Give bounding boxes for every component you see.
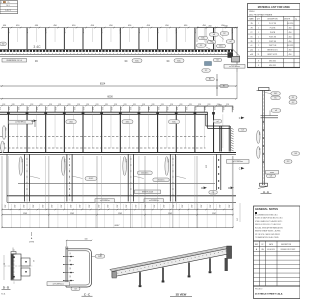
- svg-text:450: 450: [166, 107, 168, 110]
- svg-text:C - C: C - C: [84, 292, 90, 296]
- svg-text:450: 450: [205, 165, 207, 168]
- overall dimension 6000: [0, 95, 237, 99]
- svg-text:D: D: [100, 253, 102, 257]
- svg-text:228: 228: [161, 104, 164, 106]
- svg-text:C6: C6: [212, 192, 214, 194]
- svg-text:25 STEELE STREET CALA: 25 STEELE STREET CALA: [255, 292, 283, 295]
- svg-text:PL47B: PL47B: [270, 32, 276, 34]
- svg-text:228: 228: [151, 104, 154, 106]
- svg-text:1202: 1202: [70, 213, 74, 215]
- svg-text:a4: a4: [229, 41, 231, 43]
- svg-text:450: 450: [73, 107, 75, 110]
- lower elevation support posts: [24, 154, 175, 201]
- svg-text:450: 450: [97, 205, 99, 208]
- svg-text:PL 87 X8: PL 87 X8: [269, 23, 276, 25]
- svg-text:M16 X35: M16 X35: [269, 61, 276, 63]
- svg-text:65: 65: [69, 253, 71, 255]
- svg-text:G3: G3: [287, 161, 290, 163]
- svg-text:3C: 3C: [35, 59, 38, 63]
- svg-text:450: 450: [222, 107, 224, 110]
- svg-text:450: 450: [227, 205, 229, 208]
- plan view right end extension lines: [197, 28, 237, 73]
- svg-text:450: 450: [78, 205, 80, 208]
- svg-text:450: 450: [143, 205, 145, 208]
- svg-text:228: 228: [142, 104, 145, 106]
- svg-text:xxTICKERxxx: xxTICKERxxx: [15, 122, 26, 124]
- svg-text:450 X35: 450 X35: [287, 45, 293, 47]
- svg-text:228: 228: [30, 104, 33, 106]
- 3D view posts: [139, 258, 228, 287]
- svg-text:450: 450: [153, 205, 155, 208]
- svg-text:434: 434: [218, 105, 221, 107]
- svg-text:450: 450: [54, 107, 56, 110]
- svg-text:a4: a4: [216, 121, 218, 123]
- top-left revision mini-table: [0, 1, 18, 14]
- svg-text:C: C: [239, 167, 241, 170]
- svg-text:450: 450: [59, 205, 61, 208]
- section flags D: [201, 187, 234, 195]
- plan view tags 3C 34C right: [166, 59, 184, 63]
- svg-text:G4: G4: [294, 153, 297, 155]
- elevation mid-rail dashed: [0, 137, 206, 149]
- detail C-C rotated dims: [69, 253, 71, 278]
- svg-text:450: 450: [289, 50, 292, 52]
- svg-text:3C: 3C: [166, 59, 169, 63]
- svg-text:228: 228: [40, 104, 43, 106]
- title block project: [254, 286, 301, 299]
- lower elevation tag row 1: [137, 171, 152, 175]
- svg-text:B1: B1: [209, 79, 211, 81]
- svg-text:450: 450: [175, 107, 177, 110]
- svg-text:450 X90: 450 X90: [287, 23, 293, 25]
- svg-text:PL87 XB: PL87 XB: [269, 36, 277, 38]
- svg-text:450: 450: [190, 205, 192, 208]
- svg-text:A - A: A - A: [263, 191, 269, 194]
- svg-text:450: 450: [4, 205, 6, 208]
- section A-A top tags: [265, 92, 280, 100]
- svg-text:kg: kg: [295, 19, 297, 21]
- elevation tag 450 bubble: [66, 120, 77, 124]
- detail D-D centerlines: [4, 249, 33, 284]
- svg-text:xxTICKERxxx: xxTICKERxxx: [233, 161, 244, 163]
- svg-text:450: 450: [138, 107, 140, 110]
- svg-text:ZINC PHOSPHATE PRIMER: ZINC PHOSPHATE PRIMER: [249, 13, 273, 16]
- svg-text:450: 450: [181, 205, 183, 208]
- svg-text:450: 450: [171, 205, 173, 208]
- elevation left edge vertical tags: [1, 126, 6, 154]
- svg-text:MATERIAL LIST FOR ASSE: MATERIAL LIST FOR ASSE: [258, 6, 291, 9]
- svg-text:UNDERSIDE 1.4.5.6: UNDERSIDE 1.4.5.6: [6, 60, 22, 62]
- svg-text:450: 450: [289, 41, 292, 43]
- right end vertical dim 275: [236, 203, 241, 222]
- svg-text:a4: a4: [213, 34, 215, 36]
- elevation posts: [7, 112, 223, 153]
- svg-text:86: 86: [69, 268, 71, 270]
- elevation right end tag a: [213, 120, 222, 123]
- svg-text:QTY: QTY: [257, 19, 260, 21]
- svg-text:228: 228: [207, 104, 210, 106]
- svg-text:450: 450: [64, 107, 66, 110]
- elevation extension stubs with 450 glyphs: [0, 106, 233, 112]
- svg-text:34C: 34C: [126, 121, 130, 123]
- svg-text:450: 450: [31, 205, 33, 208]
- section A-A post: [262, 91, 264, 186]
- svg-text:1: 1: [258, 36, 259, 38]
- svg-text:6067: 6067: [115, 225, 121, 227]
- svg-text:450: 450: [26, 107, 28, 110]
- grid bubbles right margin lower: [284, 152, 300, 163]
- lower elevation left end plate: [6, 154, 8, 202]
- svg-text:xxTICKERxx: xxTICKERxx: [100, 200, 110, 202]
- svg-text:450x45C: 450x45C: [157, 179, 165, 181]
- svg-text:450: 450: [157, 107, 159, 110]
- plan view 450 dimension labels: [3, 25, 226, 27]
- svg-text:86: 86: [2, 263, 4, 265]
- svg-text:450: 450: [13, 205, 15, 208]
- svg-text:PL87 XB: PL87 XB: [269, 41, 277, 43]
- svg-text:228: 228: [58, 104, 61, 106]
- elevation end plate with serrations: [229, 126, 233, 152]
- svg-text:228: 228: [179, 104, 182, 106]
- svg-text:450: 450: [258, 132, 260, 135]
- svg-text:450: 450: [82, 107, 84, 110]
- detail C-C label: [82, 292, 93, 296]
- detail D-D dims: [2, 255, 34, 280]
- svg-text:45: 45: [69, 260, 71, 262]
- svg-text:09.04.2024: 09.04.2024: [267, 249, 275, 251]
- svg-text:450: 450: [115, 205, 117, 208]
- detail D-D bolts: [13, 256, 27, 277]
- grid bubbles right margin upper: [289, 96, 297, 104]
- bottom dimension line 450 series: [1, 209, 233, 211]
- elevation end lower post with bolts: [216, 154, 220, 190]
- plan view tags 3C 34C mid: [124, 59, 142, 63]
- overall dimension 6024: [0, 82, 237, 86]
- svg-text:450: 450: [231, 107, 233, 110]
- lower elevation kick plate boxes: [95, 199, 164, 203]
- svg-text:228: 228: [49, 104, 52, 106]
- svg-text:D: D: [201, 187, 203, 190]
- section A-A lower tags: [266, 171, 279, 178]
- svg-text:1202: 1202: [118, 213, 122, 215]
- detail C-C bottom bubble: [71, 287, 80, 290]
- elevation end rotated dim 450: [205, 165, 207, 168]
- svg-text:450: 450: [162, 205, 164, 208]
- svg-text:228: 228: [114, 104, 117, 106]
- svg-text:450: 450: [87, 205, 89, 208]
- svg-text:450: 450: [134, 205, 136, 208]
- bottom-left margin text: [1, 293, 6, 296]
- svg-text:PL 47B: PL 47B: [270, 28, 276, 30]
- detail C-C channel outline: [66, 240, 92, 287]
- svg-text:M16 X35: M16 X35: [269, 65, 276, 67]
- section flag C lower: [239, 167, 245, 170]
- svg-text:228: 228: [198, 104, 201, 106]
- svg-text:1: 1: [258, 41, 259, 43]
- plan view rotated post dimensions: [7, 29, 233, 34]
- 3D view left end foot: [112, 272, 117, 279]
- svg-text:228: 228: [21, 104, 24, 106]
- lower elevation post side tags: [19, 157, 186, 179]
- plan view underside note box: [2, 58, 27, 62]
- elevation bottom edge lines: [0, 153, 236, 155]
- svg-text:450: 450: [194, 107, 196, 110]
- detail D-D label: [2, 286, 11, 290]
- svg-text:450: 450: [209, 205, 211, 208]
- plan view right end dimension 434: [196, 26, 238, 29]
- elevation top rail: [0, 112, 208, 114]
- svg-text:1203: 1203: [23, 213, 27, 215]
- svg-text:450: 450: [4, 128, 6, 131]
- plan view end lower tags: [202, 58, 245, 72]
- elevation right end dim 434: [195, 105, 234, 108]
- svg-text:434: 434: [224, 26, 227, 28]
- elevation end ticker box: [227, 160, 250, 164]
- svg-text:xxTICKERxx: xxTICKERxx: [149, 200, 159, 202]
- svg-text:6000: 6000: [107, 95, 113, 98]
- svg-text:DESCRIPTION: DESCRIPTION: [281, 244, 291, 246]
- elevation dimension text row 228: [0, 104, 233, 106]
- svg-text:450: 450: [50, 205, 52, 208]
- svg-text:34C: 34C: [135, 60, 139, 62]
- plan view right end leader tags: [197, 32, 235, 50]
- svg-text:2: 2: [258, 45, 259, 47]
- svg-text:228: 228: [12, 104, 15, 106]
- svg-text:NCA: NCA: [1, 293, 6, 296]
- svg-text:BRKT 50T21: BRKT 50T21: [268, 54, 278, 56]
- svg-text:450: 450: [199, 205, 201, 208]
- 3D view rail holes: [114, 251, 227, 275]
- lower elevation rail line partial: [18, 183, 215, 185]
- svg-text:228: 228: [105, 104, 108, 106]
- svg-text:ITEM PL150x8: ITEM PL150x8: [142, 191, 153, 193]
- svg-text:450: 450: [45, 107, 47, 110]
- svg-text:D: D: [228, 187, 230, 190]
- svg-text:450: 450: [41, 205, 43, 208]
- svg-text:150PT LB: 150PT LB: [269, 45, 277, 47]
- svg-text:3D VIEW: 3D VIEW: [176, 293, 187, 297]
- detail D-D top cap: [11, 248, 16, 255]
- svg-text:34C: 34C: [172, 121, 176, 123]
- svg-text:450: 450: [213, 107, 215, 110]
- plan view perforation dots: [2, 52, 233, 55]
- elevation right end step-down rail: [206, 112, 230, 128]
- svg-text:xxTICKERxxxx: xxTICKERxxxx: [53, 283, 64, 285]
- svg-text:450: 450: [22, 205, 24, 208]
- 3D view rail body: [110, 246, 228, 277]
- svg-text:450: 450: [289, 28, 292, 30]
- svg-text:xxTICKERxxx: xxTICKERxxx: [229, 66, 240, 68]
- svg-text:228: 228: [86, 104, 89, 106]
- svg-text:275: 275: [236, 218, 238, 221]
- svg-text:228: 228: [77, 104, 80, 106]
- elevation right end post thick: [220, 126, 222, 152]
- svg-text:450: 450: [8, 107, 10, 110]
- 3D view label: [170, 293, 192, 297]
- svg-text:xxxxx: xxxxx: [270, 172, 274, 174]
- svg-text:3 4C: 3 4C: [33, 45, 41, 49]
- svg-text:1:417.2: 1:417.2: [5, 10, 11, 12]
- typ note: [29, 232, 35, 243]
- svg-text:450: 450: [101, 107, 103, 110]
- svg-text:1: 1: [258, 28, 259, 30]
- svg-text:C6: C6: [216, 60, 218, 62]
- svg-text:45: 45: [32, 260, 34, 262]
- svg-text:450C: 450C: [89, 178, 94, 180]
- section marker B vertical: [206, 72, 237, 99]
- svg-text:C6: C6: [270, 176, 272, 178]
- svg-text:450: 450: [129, 107, 131, 110]
- svg-text:228: 228: [133, 104, 136, 106]
- svg-text:450: 450: [92, 107, 94, 110]
- detail C-C ticker box: [47, 282, 70, 286]
- revision table: [254, 241, 301, 286]
- plan view handrail tube (top band): [0, 49, 233, 56]
- section A-A top bracket: [257, 88, 272, 91]
- section A-A foot: [258, 183, 268, 188]
- svg-text:450: 450: [17, 107, 19, 110]
- detail C-C tag bubble: [92, 255, 105, 259]
- svg-text:450: 450: [120, 107, 122, 110]
- section A-A mid bracket: [261, 109, 281, 118]
- svg-text:450: 450: [289, 54, 292, 56]
- detail C-C dim 100: [66, 238, 92, 241]
- svg-text:8: 8: [258, 65, 259, 67]
- 3D view end cap: [227, 246, 232, 259]
- svg-text:1: 1: [258, 23, 259, 25]
- lower elevation tag row 2: [153, 178, 170, 182]
- svg-text:11: 11: [258, 54, 260, 56]
- plan view top dimension line: [1, 27, 238, 29]
- svg-text:228: 228: [189, 104, 192, 106]
- svg-text:G2: G2: [292, 102, 295, 104]
- grid label D left of 3D view: [100, 253, 102, 257]
- svg-text:C8: C8: [74, 289, 76, 291]
- svg-text:450: 450: [36, 107, 38, 110]
- svg-text:450: 450: [289, 32, 292, 34]
- svg-text:D - D: D - D: [3, 286, 9, 290]
- svg-text:FINISH:: FINISH:: [249, 11, 255, 13]
- detail C-C bolts: [63, 256, 74, 282]
- elevation mid tags: [122, 120, 180, 124]
- svg-text:34C: 34C: [177, 60, 181, 62]
- elevation left note box: [9, 120, 33, 124]
- svg-text:450: 450: [203, 107, 205, 110]
- bottom dimension line second tier: [1, 213, 234, 216]
- svg-text:450: 450: [147, 107, 149, 110]
- svg-text:3C: 3C: [124, 59, 127, 63]
- svg-text:PROJECT: PROJECT: [255, 288, 262, 290]
- svg-text:228: 228: [96, 104, 99, 106]
- general notes box: [254, 206, 301, 241]
- section A-A left vertical tags: [257, 131, 261, 159]
- svg-text:450: 450: [218, 205, 220, 208]
- svg-text:228: 228: [124, 104, 127, 106]
- svg-text:14.5: 14.5: [6, 5, 9, 7]
- bottom dimension extension lines: [2, 156, 233, 228]
- svg-text:450: 450: [106, 205, 108, 208]
- svg-text:450: 450: [185, 107, 187, 110]
- svg-text:a4: a4: [275, 110, 277, 112]
- svg-text:DESCRIPTION: DESCRIPTION: [267, 19, 277, 21]
- plan view end mounting pad (blue): [205, 62, 212, 66]
- plan view rail end plate: [228, 50, 241, 63]
- lower elevation tag left: [85, 177, 97, 181]
- svg-text:228: 228: [2, 104, 5, 106]
- svg-text:450: 450: [110, 107, 112, 110]
- svg-text:GENERAL NOTES: GENERAL NOTES: [255, 207, 278, 211]
- lower elevation item box mid: [135, 190, 161, 194]
- svg-text:FIT ON SITE. CHECK DIMS PRIOR: FIT ON SITE. CHECK DIMS PRIOR: [255, 234, 281, 236]
- elevation tag C3: [238, 128, 247, 131]
- svg-text:450: 450: [208, 26, 211, 28]
- material list table: [248, 4, 301, 68]
- section flag C upper: [239, 117, 245, 120]
- lower elevation kick plate lines: [7, 196, 236, 203]
- svg-text:6024: 6024: [100, 82, 106, 85]
- svg-text:C: C: [239, 117, 241, 120]
- svg-text:G1: G1: [292, 97, 295, 99]
- svg-text:1: 1: [258, 50, 259, 52]
- plan view tag 3C below band: [35, 59, 38, 63]
- svg-text:100: 100: [85, 238, 88, 240]
- svg-text:450: 450: [69, 205, 71, 208]
- svg-text:ISSUED FOR CONST.: ISSUED FOR CONST.: [280, 249, 296, 251]
- svg-text:REV: REV: [255, 244, 258, 246]
- svg-text:1: 1: [258, 32, 259, 34]
- svg-text:228: 228: [68, 104, 71, 106]
- bottom dimension 450 rotated labels: [4, 205, 230, 208]
- svg-text:450: 450: [289, 36, 292, 38]
- svg-text:86: 86: [69, 276, 71, 278]
- section A-A bolt dots: [263, 121, 264, 162]
- svg-text:BY: BY: [261, 244, 263, 246]
- svg-text:228: 228: [226, 104, 229, 106]
- svg-text:1207: 1207: [212, 213, 216, 215]
- plan view tag 34C: [33, 45, 41, 49]
- plan view tag 3D left end: [0, 42, 6, 45]
- svg-text:228: 228: [170, 104, 173, 106]
- bottom overall dimension 6067: [1, 225, 234, 228]
- svg-text:a1: a1: [251, 45, 253, 47]
- svg-text:450: 450: [125, 205, 127, 208]
- svg-text:8: 8: [258, 61, 259, 63]
- detail D-D plate outline: [11, 254, 30, 280]
- svg-text:BRKM 50T21: BRKM 50T21: [267, 50, 277, 52]
- svg-text:Ph: Ph: [8, 2, 10, 4]
- svg-text:C3: C3: [241, 130, 243, 132]
- section A-A label: [261, 191, 272, 194]
- svg-text:1202: 1202: [168, 213, 172, 215]
- svg-text:LENGTH: LENGTH: [284, 19, 290, 21]
- svg-text:(TYP): (TYP): [29, 241, 35, 243]
- section flag A: [31, 120, 37, 128]
- plan view post centre lines: [8, 28, 232, 50]
